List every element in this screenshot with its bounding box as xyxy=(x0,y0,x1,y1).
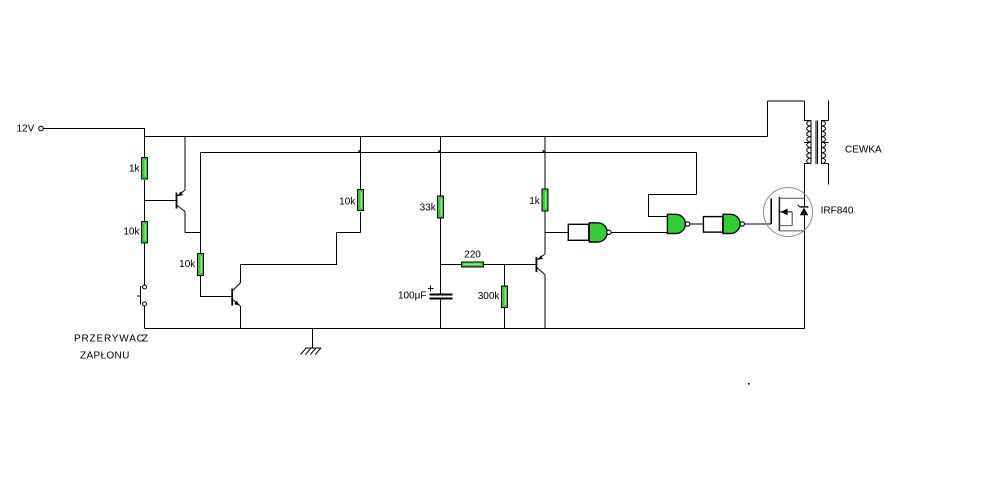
svg-text:10k: 10k xyxy=(123,227,140,238)
svg-text:12V: 12V xyxy=(17,124,35,135)
svg-text:100µF: 100µF xyxy=(398,291,427,302)
svg-text:33k: 33k xyxy=(420,203,437,214)
svg-text:10k: 10k xyxy=(339,197,356,208)
svg-text:ZAPŁONU: ZAPŁONU xyxy=(80,351,130,362)
svg-text:PRZERYWAC: PRZERYWAC xyxy=(74,334,145,345)
svg-text:1k: 1k xyxy=(129,164,141,175)
svg-text:220: 220 xyxy=(464,249,481,260)
svg-text:300k: 300k xyxy=(478,291,501,302)
svg-text:1k: 1k xyxy=(529,196,541,207)
svg-text:IRF840: IRF840 xyxy=(821,205,854,216)
svg-text:10k: 10k xyxy=(179,259,196,270)
svg-text:Z: Z xyxy=(142,334,148,345)
svg-text:CEWKA: CEWKA xyxy=(845,145,882,156)
